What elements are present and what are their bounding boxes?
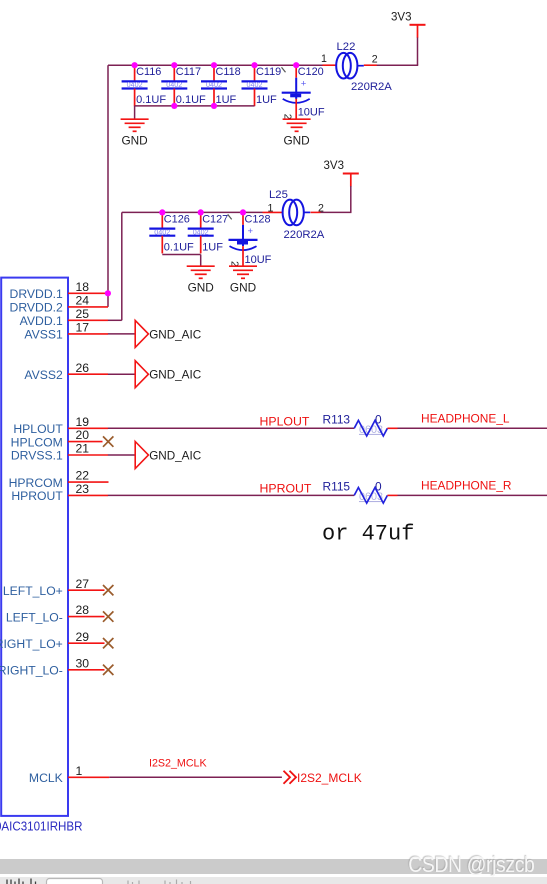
svg-text:AVSS1: AVSS1 — [24, 328, 63, 342]
svg-text:0.1UF: 0.1UF — [176, 94, 206, 106]
svg-text:GND_AIC: GND_AIC — [149, 328, 201, 341]
svg-text:24: 24 — [76, 294, 90, 308]
svg-text:HPRCOM: HPRCOM — [9, 476, 63, 490]
capacitor C118 — [201, 65, 241, 106]
wire pin25 to group2 drop — [108, 319, 122, 321]
svg-text:3V3: 3V3 — [391, 11, 411, 23]
pin 18 DRVDD.1 — [10, 280, 105, 301]
power 3V3 — [391, 11, 426, 38]
wire pin21 to gnd_aic — [108, 454, 135, 456]
svg-text:23: 23 — [76, 482, 90, 496]
pin 23 HPROUT — [11, 482, 108, 503]
pin 21 DRVSS.1 — [11, 442, 108, 463]
power 3V3 — [324, 160, 359, 187]
svg-text:DRVDD.2: DRVDD.2 — [10, 301, 64, 315]
port I2S2_MCLK — [284, 771, 362, 785]
wire R113 right — [387, 427, 397, 429]
svg-text:HEADPHONE_L: HEADPHONE_L — [421, 412, 510, 426]
svg-text:L22: L22 — [337, 41, 356, 53]
wire MCLK net — [109, 776, 282, 778]
svg-text:C119: C119 — [256, 66, 281, 78]
pin 24 DRVDD.2 — [10, 294, 108, 315]
inductor L25 stubs — [263, 211, 321, 213]
svg-text:10UF: 10UF — [245, 254, 272, 266]
svg-text:C127: C127 — [202, 213, 228, 225]
svg-text:or 47uf: or 47uf — [322, 522, 414, 547]
svg-text:2: 2 — [372, 54, 378, 66]
wire left drop to pins 18/24 — [107, 65, 109, 307]
wire HPLOUT net — [108, 427, 354, 429]
svg-text:RIGHT_LO+: RIGHT_LO+ — [0, 637, 63, 651]
ground GND_AIC 1 — [135, 320, 201, 347]
inductor L22 stubs — [323, 64, 377, 66]
pin 26 AVSS2 — [24, 361, 108, 382]
wire left drop to pin 25 — [121, 212, 123, 320]
pin 1 MCLK — [29, 764, 109, 785]
svg-text:0.1UF: 0.1UF — [136, 94, 166, 106]
svg-text:30: 30 — [76, 656, 90, 670]
wire R115 right — [387, 494, 397, 496]
pin 28 LEFT_LO- — [6, 603, 105, 624]
node no-connect pin28 — [103, 611, 113, 621]
label L25 — [268, 189, 325, 241]
svg-text:27: 27 — [76, 577, 90, 591]
svg-text:HPROUT: HPROUT — [11, 489, 63, 503]
svg-text:I2S2_MCLK: I2S2_MCLK — [149, 758, 207, 770]
svg-text:MCLK: MCLK — [29, 771, 63, 785]
svg-text:AVSS2: AVSS2 — [24, 368, 63, 382]
svg-text:GND_AIC: GND_AIC — [149, 369, 201, 382]
svg-text:19: 19 — [76, 415, 90, 429]
svg-text:1: 1 — [268, 202, 274, 214]
wire bottom rail group2 — [162, 254, 200, 256]
wire pin26 to gnd_aic — [108, 373, 135, 375]
svg-text:LEFT_LO-: LEFT_LO- — [6, 610, 63, 624]
pin 30 RIGHT_LO- — [0, 656, 104, 677]
pin 27 LEFT_LO+ — [3, 577, 105, 598]
pin 20 HPLCOM — [11, 428, 103, 449]
svg-text:220R2A: 220R2A — [284, 229, 325, 241]
node no-connect pin20 — [103, 436, 113, 446]
pin 25 AVDD.1 — [20, 307, 108, 328]
capacitor C120 — [282, 65, 325, 120]
ground G1 — [121, 119, 149, 147]
svg-text:10UF: 10UF — [298, 107, 325, 119]
wire bottom rail group1 — [135, 105, 255, 107]
pin 19 HPLOUT — [13, 415, 108, 436]
wire from L25 to 3V3 — [350, 186, 352, 212]
ground G2 — [283, 119, 311, 147]
pin 22 HPRCOM — [9, 469, 109, 490]
svg-text:28: 28 — [76, 603, 90, 617]
capacitor C126 — [149, 212, 194, 253]
svg-text:2: 2 — [318, 202, 324, 214]
svg-text:DRVDD.1: DRVDD.1 — [10, 287, 64, 301]
svg-text:C117: C117 — [176, 66, 201, 78]
svg-text:C128: C128 — [245, 213, 271, 225]
bottom input box top — [47, 879, 103, 884]
svg-text:+: + — [301, 79, 307, 90]
capacitor C128 — [228, 212, 271, 267]
wire from L22 to 3V3 — [417, 38, 419, 66]
svg-text:1UF: 1UF — [202, 241, 223, 253]
svg-text:1UF: 1UF — [256, 94, 277, 106]
node no-connect pin30 — [103, 665, 113, 675]
ground GND_AIC 2 — [135, 361, 201, 388]
svg-text:GND: GND — [230, 281, 256, 295]
junction dots group2 — [159, 209, 246, 215]
wire top rail group1 — [108, 64, 323, 66]
svg-text:I2S2_MCLK: I2S2_MCLK — [297, 771, 362, 785]
svg-text:22: 22 — [76, 469, 90, 483]
svg-text:AVDD.1: AVDD.1 — [20, 314, 63, 328]
wire pin17 to gnd_aic — [108, 333, 135, 335]
svg-text:0.1UF: 0.1UF — [164, 241, 194, 253]
svg-text:C120: C120 — [298, 66, 324, 78]
capacitor C117 — [161, 65, 206, 106]
svg-text:26: 26 — [76, 361, 90, 375]
wire HPROUT net — [108, 494, 354, 496]
pin 29 RIGHT_LO+ — [0, 630, 104, 651]
inductor L22 — [336, 53, 364, 79]
svg-text:0AIC3101IRHBR: 0AIC3101IRHBR — [0, 818, 83, 833]
svg-text:GND: GND — [121, 134, 147, 148]
capacitor C127 — [188, 212, 232, 253]
svg-text:GND: GND — [283, 134, 309, 148]
bottom ui strip — [0, 877, 547, 884]
label L22 — [321, 41, 392, 93]
svg-text:1UF: 1UF — [216, 94, 237, 106]
ground G3 — [187, 266, 215, 294]
junction dots group1 — [132, 62, 300, 109]
svg-text:HPROUT: HPROUT — [260, 481, 312, 495]
svg-text:HPLCOM: HPLCOM — [11, 435, 63, 449]
svg-text:1: 1 — [76, 764, 83, 778]
ground GND_AIC 3 — [135, 442, 201, 469]
svg-text:21: 21 — [76, 442, 90, 456]
svg-text:HEADPHONE_R: HEADPHONE_R — [421, 479, 512, 493]
ground G4 — [229, 266, 257, 294]
node no-connect pin29 — [103, 638, 113, 648]
inductor L25 — [283, 200, 311, 226]
node no-connect pin27 — [103, 585, 113, 595]
svg-text:RIGHT_LO-: RIGHT_LO- — [0, 664, 63, 678]
pin 17 AVSS1 — [24, 321, 108, 342]
resistor R115 — [323, 479, 388, 503]
svg-text:29: 29 — [76, 630, 90, 644]
svg-text:R113: R113 — [323, 412, 351, 426]
capacitor C116 — [122, 65, 167, 106]
svg-text:1: 1 — [321, 53, 327, 65]
svg-text:25: 25 — [76, 307, 90, 321]
resistor R113 — [323, 412, 388, 436]
svg-text:DRVSS.1: DRVSS.1 — [11, 449, 63, 463]
svg-text:GND: GND — [188, 281, 214, 295]
wire top rail group2 — [122, 211, 263, 213]
svg-text:+: + — [248, 226, 254, 237]
op-amp U1 codec box — [1, 278, 68, 816]
svg-text:HPLOUT: HPLOUT — [13, 422, 63, 436]
svg-text:C118: C118 — [216, 66, 241, 78]
svg-text:GND_AIC: GND_AIC — [149, 449, 201, 462]
svg-text:HPLOUT: HPLOUT — [260, 414, 310, 428]
svg-text:LEFT_LO+: LEFT_LO+ — [3, 584, 63, 598]
svg-text:220R2A: 220R2A — [351, 81, 392, 93]
svg-text:17: 17 — [76, 321, 90, 335]
svg-text:3V3: 3V3 — [324, 160, 344, 172]
svg-text:R115: R115 — [323, 479, 351, 493]
watermark bar — [0, 859, 547, 873]
svg-text:C126: C126 — [164, 213, 190, 225]
capacitor C119 — [242, 65, 286, 106]
svg-text:L25: L25 — [269, 189, 288, 201]
bottom partial glyphs — [7, 879, 36, 884]
svg-text:20: 20 — [76, 428, 90, 442]
svg-text:C116: C116 — [136, 66, 161, 78]
node pin18 junction — [105, 290, 111, 296]
svg-text:18: 18 — [76, 280, 90, 294]
